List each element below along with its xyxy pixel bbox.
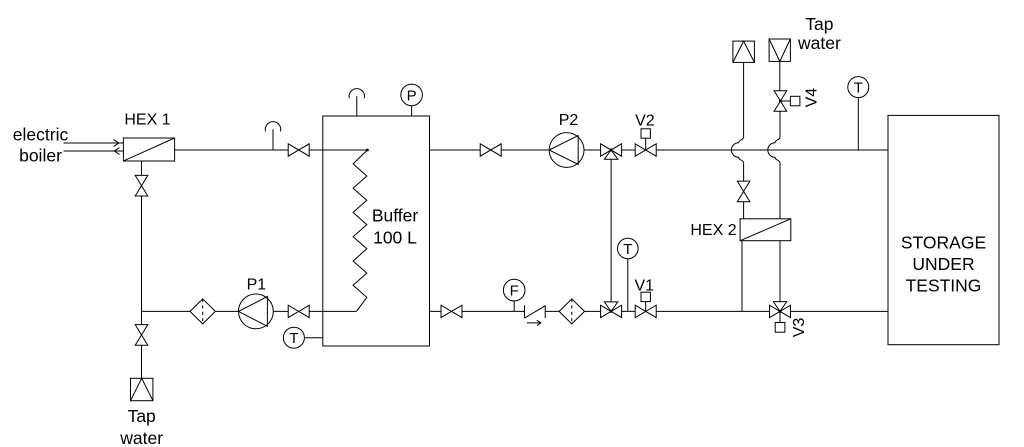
wire: bottom return pipe left section	[142, 310, 357, 312]
svg-text:UNDER: UNDER	[912, 254, 974, 274]
wire: HEX2 bottom left pipe to return line	[741, 241, 743, 312]
wire: left vertical pipe HEX1 to tap water drain	[141, 161, 143, 378]
wire: boiler return line	[64, 150, 124, 152]
tap water inlet symbol (square, triangle up)	[131, 378, 153, 400]
wire: bypass pipe between three-way valves	[610, 159, 612, 302]
valve left of buffer tank	[288, 144, 309, 156]
three-way motorised valve V3	[770, 302, 791, 333]
svg-text:boiler: boiler	[19, 146, 62, 166]
wire: vertical pipe from tap water B down to HEX2 with hop	[768, 61, 780, 218]
svg-text:STORAGE: STORAGE	[901, 233, 986, 253]
wire: top supply pipe HEX1 to buffer coil	[175, 149, 368, 151]
vent on buffer top	[349, 89, 364, 116]
valve right of buffer (bottom line)	[441, 305, 462, 317]
svg-text:HEX 1: HEX 1	[124, 112, 170, 129]
three-way valve on top line	[601, 144, 622, 159]
svg-text:T: T	[289, 330, 298, 347]
three-way valve on bottom line	[601, 302, 622, 318]
storage tank under test	[888, 115, 999, 344]
valve right of P1	[288, 305, 309, 317]
temperature gauge T (middle)	[618, 238, 639, 311]
filter/strainer on bottom line (left)	[190, 299, 215, 324]
svg-text:T: T	[854, 80, 863, 97]
svg-text:Buffer: Buffer	[372, 206, 419, 226]
svg-text:V3: V3	[791, 318, 808, 338]
vent on HEX1 outlet pipe	[265, 122, 280, 150]
wire: top supply pipe buffer to storage	[430, 149, 889, 151]
motorised valve V2	[635, 129, 656, 156]
svg-text:100 L: 100 L	[373, 228, 417, 248]
pressure gauge P on buffer top	[401, 84, 423, 116]
wire: HEX2 bottom right pipe to V3	[779, 241, 781, 302]
valve right of buffer (top line)	[480, 144, 501, 156]
pump P2	[549, 133, 584, 168]
temperature gauge T (top right)	[848, 77, 869, 150]
check valve on bottom line	[525, 305, 546, 325]
wire: vertical pipe from drain A down to HEX2 with hop	[731, 62, 743, 218]
svg-text:water: water	[797, 33, 841, 53]
svg-text:V4: V4	[804, 88, 821, 108]
svg-text:HEX 2: HEX 2	[690, 222, 736, 239]
filter/strainer on bottom line (right)	[559, 299, 584, 324]
flow meter F	[503, 279, 525, 311]
svg-text:water: water	[119, 428, 163, 447]
svg-text:P1: P1	[247, 276, 267, 293]
svg-text:electric: electric	[13, 124, 69, 144]
buffer heating coil (zigzag)	[353, 150, 367, 311]
buffer tank	[323, 116, 430, 346]
motorised valve V1	[635, 292, 656, 317]
valve on left HEX2 pipe (vertical)	[737, 181, 750, 202]
svg-text:P2: P2	[559, 112, 579, 129]
wire: boiler supply line	[64, 142, 124, 144]
arrowhead: boiler return (left)	[114, 148, 119, 155]
temperature gauge T (buffer bottom)	[283, 327, 322, 348]
drain symbol A (square, triangle up) top left	[733, 41, 755, 62]
tap water inlet symbol B (square, triangle down)	[769, 39, 790, 61]
svg-text:TESTING: TESTING	[906, 276, 982, 296]
heat exchanger HEX2	[740, 219, 791, 241]
valve above tap water drain (vertical)	[135, 325, 148, 346]
junction dot at coil top	[366, 149, 369, 152]
heat exchanger HEX1	[123, 138, 174, 161]
svg-text:F: F	[510, 283, 519, 300]
wire: bottom return pipe check valve to storage	[545, 310, 888, 312]
svg-text:V2: V2	[635, 113, 655, 130]
svg-text:Tap: Tap	[128, 406, 156, 426]
arrowhead: boiler supply (right)	[114, 140, 119, 147]
svg-text:P: P	[407, 87, 417, 104]
valve below HEX1 (vertical)	[135, 175, 148, 196]
motorised valve V4 (vertical)	[774, 91, 800, 112]
wire: bottom return pipe buffer to check valve	[430, 310, 525, 312]
pump P1	[239, 294, 274, 329]
svg-text:Tap: Tap	[805, 14, 833, 34]
svg-text:V1: V1	[635, 278, 655, 295]
svg-text:T: T	[623, 241, 632, 258]
